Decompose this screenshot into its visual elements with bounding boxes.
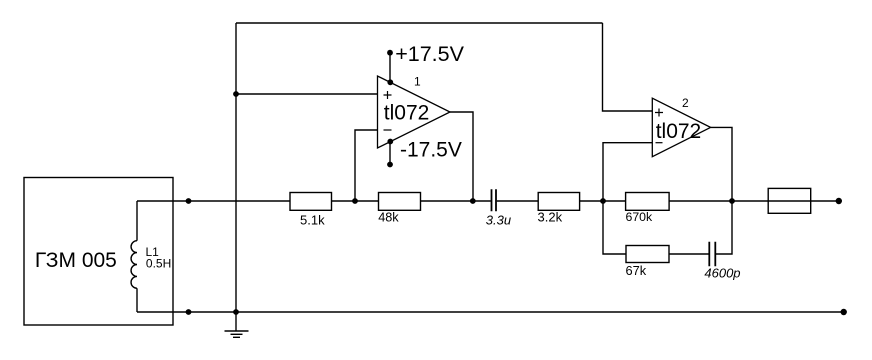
wire top ground rail bbox=[236, 22, 603, 24]
wire 4600p to output node bbox=[716, 201, 732, 254]
capacitor 4600p bbox=[704, 242, 740, 281]
svg-text:3.2k: 3.2k bbox=[538, 210, 563, 225]
fuse (output series element) bbox=[768, 188, 811, 213]
wire bottom ground rail bbox=[137, 311, 842, 313]
svg-text:3.3u: 3.3u bbox=[486, 212, 511, 227]
svg-text:+17.5V: +17.5V bbox=[395, 42, 464, 66]
wire lower feedback branch left bbox=[603, 201, 626, 254]
svg-text:ГЗМ 005: ГЗМ 005 bbox=[35, 249, 117, 272]
node ground junction bbox=[233, 309, 239, 315]
svg-text:tl072: tl072 bbox=[656, 120, 702, 143]
node ground terminal right bbox=[841, 309, 847, 315]
node U1 inverting input junction bbox=[352, 198, 358, 204]
wire U1 output bbox=[450, 112, 473, 201]
resistor 48k bbox=[378, 193, 420, 225]
wire top rail to U2 + input bbox=[603, 23, 653, 111]
supply -17.5V bbox=[387, 138, 462, 167]
wire 5.1k to 48k bbox=[332, 200, 379, 202]
node output terminal bbox=[836, 198, 842, 204]
node U2 inverting input junction bbox=[600, 198, 606, 204]
ground bbox=[225, 312, 249, 337]
wire U2 - input to node bbox=[603, 143, 652, 201]
svg-text:67k: 67k bbox=[626, 263, 647, 278]
wire op-amp U1 + input bbox=[236, 93, 378, 95]
cartridge box ГЗМ 005 bbox=[24, 178, 173, 326]
wire 67k to 4600p bbox=[669, 253, 709, 255]
capacitor 3.3u bbox=[486, 189, 511, 227]
resistor 670k bbox=[626, 193, 670, 225]
wire 670k to fuse and output bbox=[669, 200, 836, 202]
node cartridge bottom junction bbox=[186, 309, 192, 315]
op-amp U2 tl072 bbox=[652, 96, 710, 157]
op-amp U1 tl072 bbox=[378, 75, 451, 149]
svg-text:48k: 48k bbox=[378, 211, 399, 225]
svg-text:4600p: 4600p bbox=[704, 266, 740, 281]
inductor L1 0.5H bbox=[131, 201, 137, 312]
svg-text:2: 2 bbox=[682, 96, 689, 110]
resistor 67k bbox=[626, 246, 670, 279]
node U2 output junction bbox=[729, 198, 735, 204]
wire U2 output bbox=[711, 127, 732, 201]
svg-text:-17.5V: -17.5V bbox=[400, 138, 462, 161]
svg-text:5.1k: 5.1k bbox=[300, 212, 325, 227]
wire 48k to 3.3u bbox=[421, 200, 491, 202]
node U1 + input junction bbox=[233, 91, 239, 97]
supply +17.5V bbox=[387, 42, 465, 85]
wire cartridge top terminal to 5.1k bbox=[137, 200, 290, 202]
wire 3.3u to 3.2k bbox=[497, 200, 539, 202]
svg-text:0.5H: 0.5H bbox=[146, 257, 171, 271]
wire U1 feedback (node to - input) bbox=[355, 130, 378, 201]
resistor 5.1k bbox=[290, 193, 332, 228]
node U1 output junction bbox=[470, 198, 476, 204]
svg-text:tl072: tl072 bbox=[384, 102, 430, 125]
wire 3.2k to 670k bbox=[580, 200, 626, 202]
svg-text:1: 1 bbox=[414, 75, 421, 89]
wire left ground rail vertical bbox=[235, 23, 237, 312]
svg-text:670k: 670k bbox=[626, 210, 654, 224]
node cartridge top junction bbox=[186, 198, 192, 204]
resistor 3.2k bbox=[538, 193, 580, 225]
